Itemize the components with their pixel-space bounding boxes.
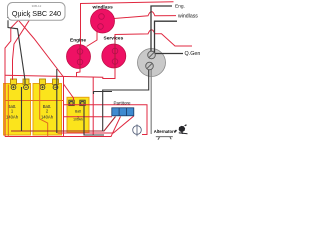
svg-text:Services: Services: [104, 35, 124, 41]
svg-text:Q.Gen: Q.Gen: [185, 51, 201, 57]
svg-text:windlass: windlass: [178, 13, 198, 19]
svg-text:Eng.: Eng.: [175, 3, 185, 9]
svg-text:30B-12: 30B-12: [32, 4, 42, 8]
svg-text:100Ah: 100Ah: [73, 118, 83, 122]
svg-text:140Ah: 140Ah: [41, 115, 54, 120]
svg-text:Batt: Batt: [75, 110, 81, 114]
svg-text:Partitore: Partitore: [113, 100, 131, 105]
svg-text:windlass: windlass: [92, 5, 114, 11]
svg-text:Alternatore: Alternatore: [154, 129, 177, 134]
svg-text:Engine: Engine: [70, 37, 86, 43]
svg-text:+: +: [17, 16, 20, 21]
svg-text:+: +: [28, 16, 31, 21]
